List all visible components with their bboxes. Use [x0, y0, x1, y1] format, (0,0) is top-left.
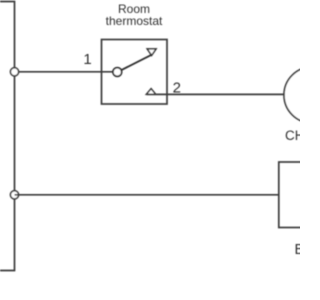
- svg-text:1: 1: [83, 51, 91, 68]
- svg-text:2: 2: [173, 80, 181, 97]
- wire live to thermostat terminal 1: [15, 71, 114, 73]
- node junction lower: [10, 191, 18, 199]
- svg-text:CH pump: CH pump: [285, 128, 300, 143]
- left supply bus wire: [0, 2, 15, 271]
- CH pump circle: [284, 67, 320, 123]
- node junction upper: [10, 68, 18, 76]
- switch lever: [121, 55, 152, 71]
- Room thermostat box: [102, 40, 168, 105]
- wire terminal 2 to CH pump: [146, 93, 284, 95]
- svg-text:Boiler: Boiler: [294, 242, 300, 258]
- wire neutral to boiler: [15, 194, 279, 196]
- switch pivot circle: [113, 68, 122, 77]
- svg-text:thermostat: thermostat: [106, 14, 163, 28]
- Boiler box: [279, 162, 320, 228]
- switch contact triangle top: [147, 49, 156, 56]
- switch contact triangle terminal 2: [146, 89, 155, 95]
